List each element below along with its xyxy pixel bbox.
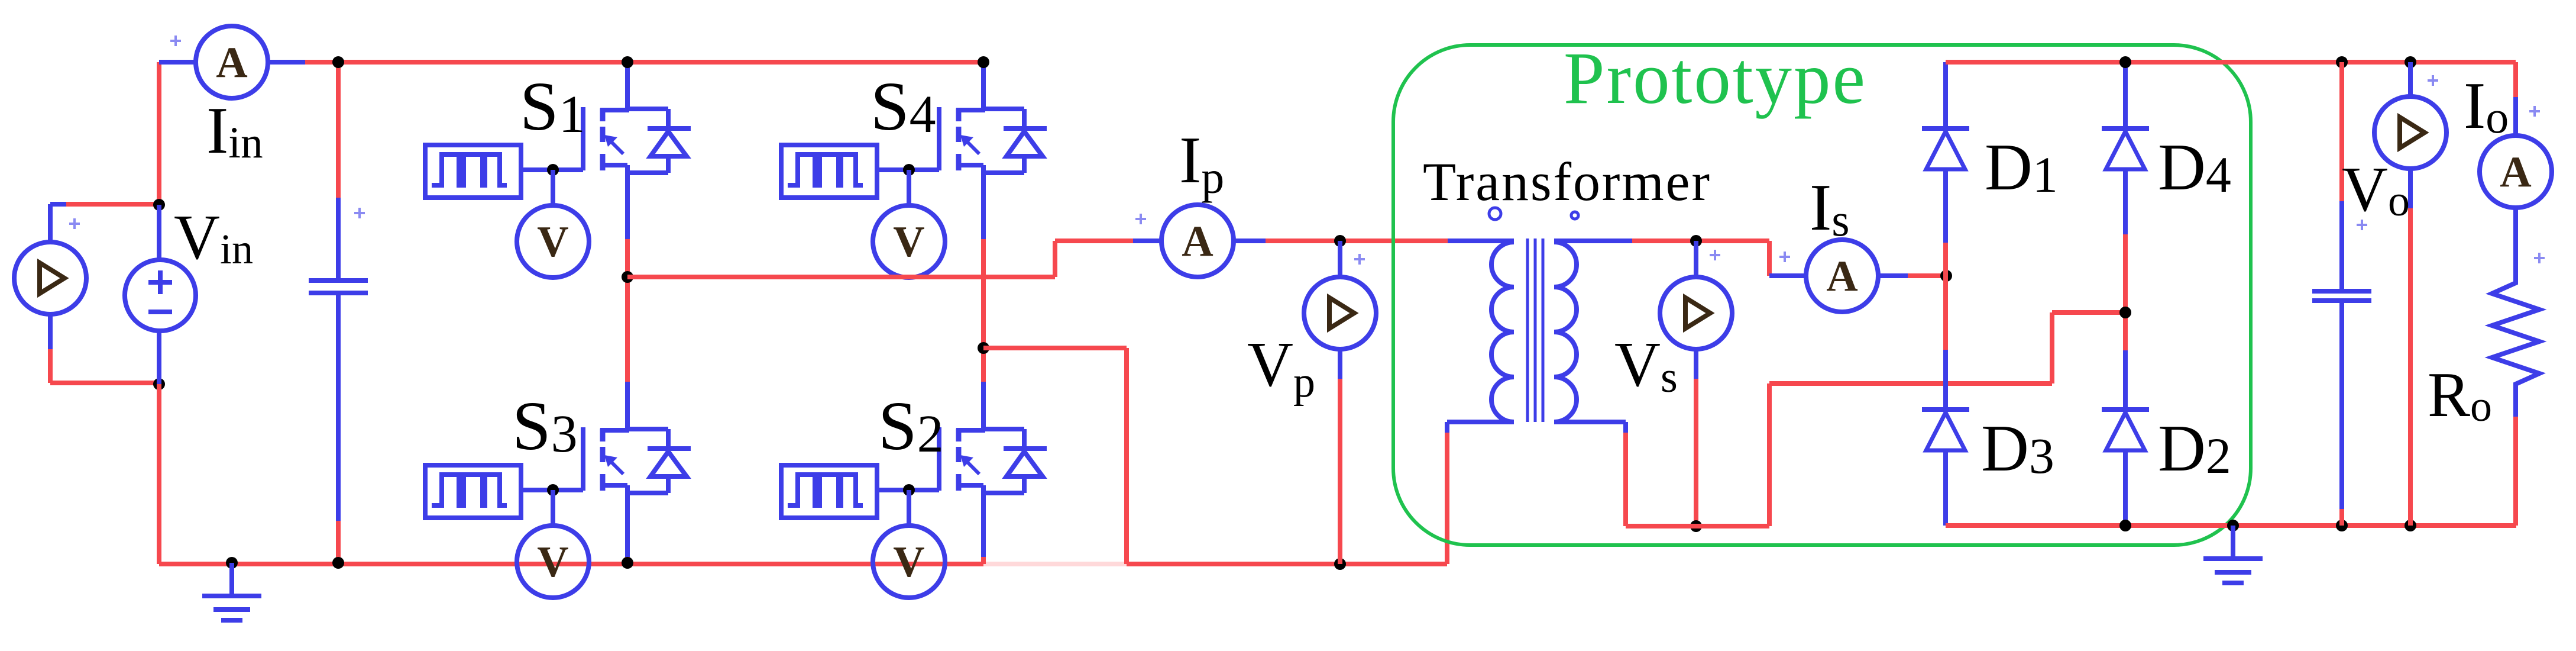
svg-text:Transformer: Transformer <box>1423 152 1710 212</box>
svg-text:S3: S3 <box>512 387 578 465</box>
svg-text:D4: D4 <box>2158 131 2231 204</box>
svg-text:Ro: Ro <box>2428 360 2492 431</box>
svg-text:S4: S4 <box>870 67 936 145</box>
svg-text:Prototype: Prototype <box>1564 38 1865 120</box>
svg-text:D1: D1 <box>1985 131 2058 204</box>
svg-text:D2: D2 <box>2158 412 2231 485</box>
svg-text:Ip: Ip <box>1179 124 1224 203</box>
svg-text:D3: D3 <box>1981 412 2054 485</box>
svg-text:S2: S2 <box>878 387 944 465</box>
svg-text:S1: S1 <box>520 67 585 145</box>
svg-text:Vin: Vin <box>174 202 253 273</box>
svg-text:Is: Is <box>1810 171 1850 246</box>
svg-text:Io: Io <box>2464 69 2509 143</box>
svg-text:Vp: Vp <box>1247 330 1315 407</box>
svg-text:Iin: Iin <box>206 94 263 167</box>
svg-text:Vs: Vs <box>1614 330 1678 402</box>
